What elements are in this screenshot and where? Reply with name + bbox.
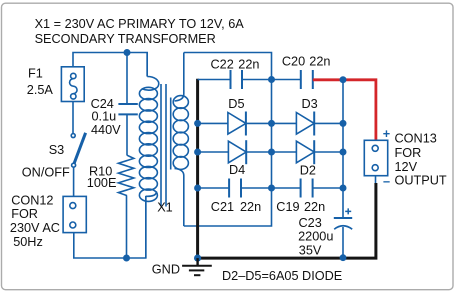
node top junction dot bbox=[124, 49, 131, 56]
svg-text:GND: GND bbox=[152, 263, 180, 277]
svg-text:230V AC: 230V AC bbox=[10, 221, 60, 235]
title text bbox=[35, 17, 245, 46]
label D4 bbox=[229, 163, 245, 177]
label CON13 FOR 12V OUTPUT bbox=[395, 131, 447, 187]
svg-text:CON13: CON13 bbox=[395, 131, 437, 145]
svg-text:C20: C20 bbox=[282, 54, 305, 68]
label C22 22n bbox=[211, 58, 260, 72]
wire bottom primary bbox=[74, 196, 146, 258]
wire top primary bbox=[73, 53, 147, 77]
wire right rail bbox=[342, 80, 344, 188]
label C21 22n bbox=[211, 200, 261, 214]
ground bbox=[182, 258, 212, 275]
diode D3 bbox=[296, 112, 343, 136]
wire black bottom to output bbox=[198, 183, 376, 258]
label X1 bbox=[157, 200, 173, 214]
svg-text:C24: C24 bbox=[91, 97, 114, 111]
svg-text:D5: D5 bbox=[228, 97, 244, 111]
svg-text:–: – bbox=[383, 175, 390, 189]
capacitor C21 bbox=[198, 179, 301, 198]
label D2 bbox=[300, 163, 316, 177]
svg-text:D2–D5=6A05 DIODE: D2–D5=6A05 DIODE bbox=[222, 269, 342, 283]
svg-text:35V: 35V bbox=[299, 244, 322, 258]
wire black left rail bbox=[196, 79, 199, 258]
svg-text:440V: 440V bbox=[91, 123, 121, 137]
svg-text:2200u: 2200u bbox=[298, 230, 333, 244]
svg-text:D2: D2 bbox=[300, 163, 316, 177]
svg-text:F1: F1 bbox=[28, 67, 43, 81]
capacitor C19 bbox=[301, 179, 343, 198]
svg-text:D4: D4 bbox=[229, 163, 245, 177]
svg-text:C21: C21 bbox=[211, 200, 234, 214]
svg-text:FOR: FOR bbox=[11, 207, 38, 221]
transformer X1 secondary coil bbox=[171, 53, 189, 227]
capacitor C20 bbox=[301, 70, 313, 89]
label C20 22n bbox=[282, 54, 331, 68]
wire middle rail bbox=[271, 80, 273, 189]
svg-text:2.5A: 2.5A bbox=[27, 83, 54, 97]
transformer X1 primary coil bbox=[139, 53, 158, 259]
connector CON13 bbox=[364, 140, 387, 183]
diode D5 bbox=[198, 112, 297, 136]
label D3 bbox=[302, 97, 318, 111]
svg-text:X1 = 230V AC PRIMARY TO 12V, 6: X1 = 230V AC PRIMARY TO 12V, 6A bbox=[35, 17, 245, 31]
svg-text:ON/OFF: ON/OFF bbox=[22, 165, 70, 179]
label GND bbox=[152, 263, 180, 277]
svg-text:SECONDARY TRANSFORMER: SECONDARY TRANSFORMER bbox=[35, 32, 216, 46]
connector CON12 bbox=[63, 196, 86, 232]
node bottom junction dot bbox=[123, 255, 130, 262]
svg-text:50Hz: 50Hz bbox=[13, 235, 43, 249]
label minus bbox=[383, 175, 390, 189]
svg-text:FOR: FOR bbox=[395, 146, 422, 160]
node middle rail dots bbox=[268, 76, 275, 192]
resistor R10 bbox=[118, 155, 133, 258]
svg-text:C22: C22 bbox=[211, 58, 234, 72]
node left rail dots bbox=[194, 120, 201, 192]
label R10 100E bbox=[87, 164, 117, 190]
label D5 bbox=[228, 97, 244, 111]
node ground junction dot bbox=[194, 255, 201, 262]
label C24 0.1u 440V bbox=[91, 97, 122, 137]
transformer core bbox=[161, 84, 166, 207]
svg-text:CON12: CON12 bbox=[11, 193, 53, 207]
label F1 2.5A bbox=[27, 67, 54, 98]
label C19 22n bbox=[276, 200, 325, 214]
svg-text:0.1u: 0.1u bbox=[92, 110, 117, 124]
svg-text:22n: 22n bbox=[240, 200, 261, 214]
node right rail dots bbox=[340, 76, 347, 191]
label CON12 FOR 230V AC 50Hz bbox=[10, 193, 60, 249]
wire switch to CON12 bbox=[73, 167, 75, 196]
svg-text:+: + bbox=[383, 127, 390, 141]
capacitor C23 electrolytic bbox=[334, 188, 352, 258]
svg-text:100E: 100E bbox=[87, 176, 117, 190]
wire secondary bottom to middle rail bbox=[184, 188, 272, 226]
svg-text:C23: C23 bbox=[299, 216, 322, 230]
diode D4 bbox=[198, 140, 297, 164]
svg-text:22n: 22n bbox=[309, 54, 330, 68]
svg-text:X1: X1 bbox=[157, 200, 173, 214]
svg-text:D3: D3 bbox=[302, 97, 318, 111]
fuse F1 bbox=[61, 67, 84, 102]
svg-text:22n: 22n bbox=[238, 58, 259, 72]
capacitor C22 bbox=[198, 70, 301, 89]
label plus bbox=[383, 127, 390, 141]
svg-text:C19: C19 bbox=[276, 200, 299, 214]
wire secondary top to middle rail bbox=[184, 53, 272, 80]
wire fuse to switch bbox=[72, 102, 74, 134]
label diode note bbox=[222, 269, 342, 283]
label C23 2200u 35V bbox=[298, 216, 333, 258]
label S3 ON/OFF bbox=[22, 143, 70, 179]
svg-text:S3: S3 bbox=[49, 143, 65, 157]
switch S3 bbox=[71, 133, 85, 167]
svg-text:12V: 12V bbox=[395, 160, 418, 174]
svg-text:22n: 22n bbox=[304, 200, 325, 214]
wire red positive bbox=[313, 80, 376, 140]
svg-text:OUTPUT: OUTPUT bbox=[395, 174, 447, 188]
capacitor C24 bbox=[118, 53, 137, 156]
node C23 bottom dot bbox=[340, 254, 347, 261]
diode D2 bbox=[296, 140, 343, 164]
